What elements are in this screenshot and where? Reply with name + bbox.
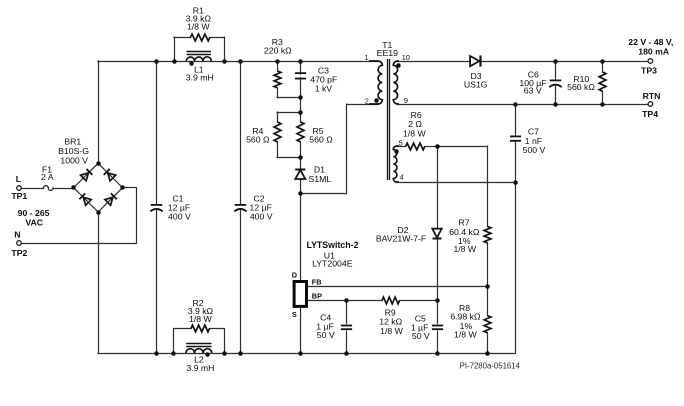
svg-text:BR1: BR1	[64, 137, 81, 147]
svg-text:D: D	[292, 271, 297, 280]
svg-text:L: L	[16, 174, 22, 184]
svg-text:1 kV: 1 kV	[315, 84, 333, 94]
svg-text:S1ML: S1ML	[308, 174, 331, 184]
svg-text:BP: BP	[312, 292, 322, 301]
svg-text:PI-7280a-051614: PI-7280a-051614	[460, 361, 521, 370]
svg-text:1000 V: 1000 V	[60, 155, 88, 165]
svg-text:5: 5	[399, 138, 403, 147]
svg-text:220 kΩ: 220 kΩ	[264, 46, 292, 56]
svg-text:9: 9	[404, 96, 408, 105]
svg-text:10: 10	[402, 53, 410, 62]
svg-text:1/8 W: 1/8 W	[453, 244, 476, 254]
svg-text:1/8 W: 1/8 W	[189, 314, 212, 324]
svg-text:560 kΩ: 560 kΩ	[567, 82, 595, 92]
svg-text:US1G: US1G	[464, 80, 488, 90]
svg-text:1: 1	[364, 53, 368, 62]
svg-text:1/8 W: 1/8 W	[187, 22, 210, 32]
svg-text:560 Ω: 560 Ω	[246, 135, 270, 145]
svg-text:4: 4	[400, 172, 404, 181]
svg-text:TP4: TP4	[642, 109, 658, 119]
svg-text:1/8 W: 1/8 W	[454, 330, 477, 340]
svg-text:LYT2004E: LYT2004E	[312, 258, 353, 268]
svg-text:N: N	[14, 230, 20, 240]
svg-text:2: 2	[365, 96, 369, 105]
svg-text:500 V: 500 V	[523, 145, 546, 155]
svg-text:VAC: VAC	[25, 218, 43, 228]
svg-text:180 mA: 180 mA	[638, 47, 670, 57]
svg-text:50 V: 50 V	[317, 330, 335, 340]
svg-text:90 - 265: 90 - 265	[18, 208, 50, 218]
svg-text:560 Ω: 560 Ω	[309, 135, 333, 145]
svg-text:1/8 W: 1/8 W	[403, 129, 426, 139]
svg-text:2 A: 2 A	[41, 172, 54, 182]
svg-text:6.98 kΩ: 6.98 kΩ	[450, 312, 481, 322]
svg-text:63 V: 63 V	[524, 85, 542, 95]
svg-text:TP3: TP3	[641, 65, 657, 75]
svg-text:S: S	[292, 310, 297, 319]
svg-text:400 V: 400 V	[168, 211, 191, 221]
svg-text:TP1: TP1	[11, 191, 27, 201]
svg-text:3.9 mH: 3.9 mH	[186, 363, 214, 373]
svg-text:EE19: EE19	[377, 48, 398, 58]
svg-text:LYTSwitch-2: LYTSwitch-2	[307, 240, 359, 250]
svg-text:BAV21W-7-F: BAV21W-7-F	[376, 233, 426, 243]
svg-text:3.9 mH: 3.9 mH	[186, 73, 214, 83]
svg-text:RTN: RTN	[643, 91, 661, 101]
svg-text:C7: C7	[528, 127, 539, 137]
svg-text:2 Ω: 2 Ω	[408, 119, 422, 129]
svg-text:FB: FB	[312, 278, 322, 287]
svg-text:1/8 W: 1/8 W	[380, 326, 403, 336]
svg-text:TP2: TP2	[11, 248, 27, 258]
svg-text:400 V: 400 V	[250, 211, 273, 221]
svg-text:50 V: 50 V	[412, 331, 430, 341]
svg-text:22 V - 48 V,: 22 V - 48 V,	[628, 37, 673, 47]
